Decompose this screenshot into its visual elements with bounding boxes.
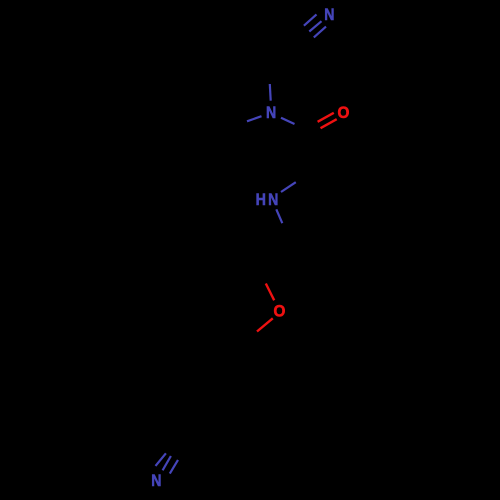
svg-text:N: N: [151, 472, 161, 490]
svg-text:O: O: [337, 103, 349, 122]
svg-text:N: N: [266, 104, 276, 122]
svg-text:N: N: [324, 6, 334, 24]
svg-text:O: O: [274, 302, 286, 321]
svg-text:N: N: [268, 191, 278, 209]
svg-text:H: H: [256, 191, 266, 209]
